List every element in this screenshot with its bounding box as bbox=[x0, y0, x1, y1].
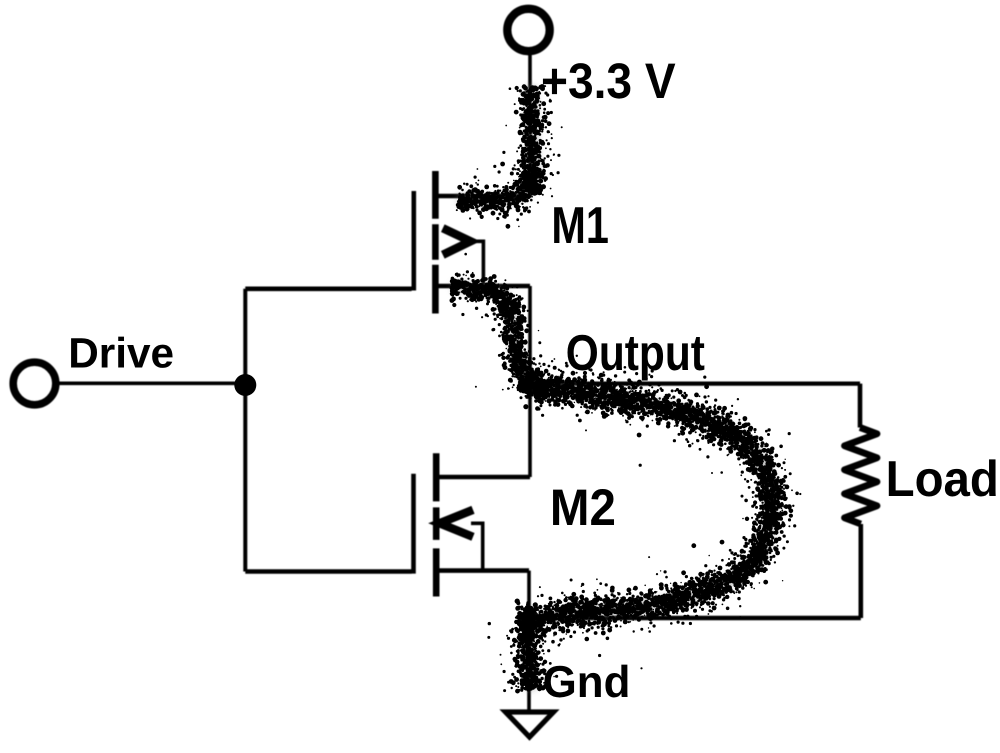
svg-text:Load: Load bbox=[886, 450, 999, 507]
wire M2 source bbox=[438, 568, 529, 573]
current path highlight: supply through M1 underlay bbox=[452, 86, 534, 384]
wire bottom Gnd rail bbox=[529, 616, 861, 621]
node Output junction bbox=[519, 373, 541, 395]
wire M1 drain bbox=[436, 194, 530, 199]
wire Output node to M2 drain bbox=[528, 384, 532, 477]
wire Drive input bbox=[57, 381, 246, 385]
transistor M2 body arrow bbox=[439, 510, 473, 537]
node Gnd junction bbox=[519, 609, 539, 629]
terminal Drive bbox=[13, 362, 56, 405]
wire Output node to Load bbox=[530, 382, 860, 386]
wire M1 gate bbox=[245, 286, 411, 291]
transistor M2 gate bar bbox=[411, 474, 416, 574]
terminal +3.3V bbox=[507, 9, 549, 51]
resistor Load bbox=[845, 428, 878, 525]
transistor M2 channel bar bbox=[433, 453, 440, 596]
transistor M2 body connector bbox=[471, 523, 483, 571]
transistor M1 body connector bbox=[469, 241, 484, 286]
svg-text:Drive: Drive bbox=[68, 330, 174, 378]
ground symbol bbox=[506, 712, 554, 737]
wire Load top bbox=[858, 384, 863, 428]
transistor M1 body arrow bbox=[443, 228, 471, 255]
svg-text:Gnd: Gnd bbox=[543, 658, 631, 707]
wire Drive gate bus bbox=[243, 289, 247, 572]
wire Gnd node to ground symbol bbox=[527, 619, 531, 710]
transistor M1 channel bar bbox=[432, 171, 439, 314]
wire M1 source to Output node bbox=[528, 286, 532, 384]
wire M2 gate bbox=[245, 569, 411, 574]
svg-text:+3.3 V: +3.3 V bbox=[541, 53, 676, 109]
node Drive junction bbox=[234, 374, 256, 396]
wire M1 source bbox=[436, 284, 530, 289]
svg-text:M1: M1 bbox=[551, 197, 609, 255]
current path highlight: Output through Load to Gnd underlay bbox=[528, 386, 773, 690]
wire M2 source to Gnd node bbox=[527, 571, 531, 619]
current path highlight: Output through Load to Gnd speckles bbox=[487, 341, 801, 694]
wire +3.3V to M1 drain bbox=[528, 52, 532, 197]
wire Load bottom bbox=[858, 524, 863, 618]
wire M2 drain bbox=[436, 475, 530, 480]
transistor M1 gate bar bbox=[411, 191, 416, 291]
svg-text:M2: M2 bbox=[550, 478, 616, 536]
current path highlight: supply through M1 speckles bbox=[450, 84, 563, 393]
